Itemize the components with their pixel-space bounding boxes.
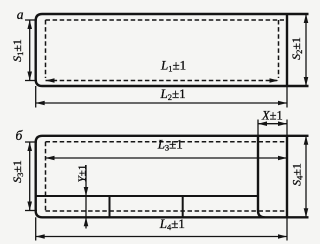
- svg-text:L4±1: L4±1: [159, 216, 185, 232]
- bag A dashed seam right: [278, 20, 280, 78]
- dimension Y line upper: [85, 165, 87, 196]
- dimension X line: [258, 123, 287, 125]
- dimension S1 ticks: [25, 19, 37, 21]
- svg-text:S4±1: S4±1: [290, 163, 305, 186]
- dimension L1 dashed line: [46, 80, 279, 82]
- bag A dashed seam left: [45, 20, 47, 78]
- dimension S3 line: [29, 142, 31, 211]
- dimension S3 ticks: [25, 141, 37, 143]
- svg-text:S3±1: S3±1: [10, 160, 25, 183]
- svg-text:L1±1: L1±1: [160, 58, 186, 74]
- bag B fold line: [36, 195, 258, 197]
- dimension S2 line: [305, 14, 307, 86]
- bag B divider 1: [109, 196, 111, 217]
- svg-text:L2±1: L2±1: [160, 86, 186, 102]
- svg-text:X±1: X±1: [261, 109, 283, 123]
- bag B dashed seam left: [45, 142, 47, 211]
- svg-text:L3±1: L3±1: [157, 137, 183, 153]
- svg-text:S2±1: S2±1: [289, 37, 304, 60]
- dimension L3 line: [46, 157, 288, 159]
- dimension S4 line: [305, 136, 307, 218]
- dimension L4 extension lines: [35, 217, 37, 240]
- dimension L2 extension lines: [35, 86, 37, 108]
- bag A right edge: [286, 14, 288, 86]
- bag B divider 2: [182, 196, 184, 217]
- dimension Y line lower: [85, 217, 87, 228]
- svg-text:Y±1: Y±1: [77, 165, 89, 183]
- svg-text:S1±1: S1±1: [10, 39, 25, 62]
- bag B gusset line: [258, 136, 265, 218]
- bag B right edge: [286, 136, 288, 218]
- bag B outline: [36, 136, 309, 218]
- bag B dashed seam top: [46, 141, 287, 143]
- bag A dashed seam top: [46, 19, 285, 21]
- bag A outline: [36, 14, 309, 86]
- svg-text:а: а: [17, 7, 24, 22]
- dimension S1 line: [29, 20, 31, 81]
- dimension Y line through: [85, 196, 87, 217]
- dimension X extension lines: [257, 120, 259, 136]
- dimension L2 line: [36, 102, 287, 104]
- bag B dashed seam bottom: [46, 210, 287, 212]
- dimension L4 line: [36, 236, 287, 238]
